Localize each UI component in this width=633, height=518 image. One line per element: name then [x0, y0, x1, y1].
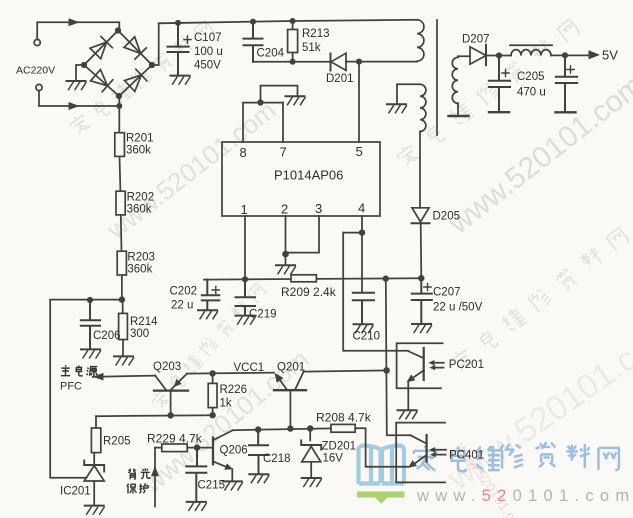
wire backlight: [154, 448, 156, 507]
diode bridge D1: [90, 36, 113, 59]
svg-text:R214: R214: [130, 316, 158, 328]
logo book icon: [359, 446, 405, 485]
resistor R208: [331, 424, 410, 466]
node bridge top: [115, 27, 121, 33]
svg-text:C107: C107: [194, 32, 222, 44]
svg-text:8: 8: [240, 145, 247, 160]
ground: [398, 410, 418, 419]
resistor R214: [119, 300, 128, 356]
svg-text:51k: 51k: [302, 42, 321, 54]
svg-text:R203: R203: [127, 252, 154, 264]
wire pfc out: [93, 376, 155, 377]
wire: [293, 61, 331, 63]
logo green band: [357, 492, 405, 504]
label zhudianyuan PFC: [61, 365, 97, 376]
node: [383, 367, 390, 374]
capacitor C215: [186, 448, 206, 502]
wire pin4: [343, 216, 362, 292]
capacitor C107: [168, 23, 192, 75]
transformer T1 primary: [417, 20, 424, 61]
label beiguang baohu: [127, 468, 150, 493]
watermark gray cjk band lower-left: [150, 282, 268, 410]
logo blue cjk text: [414, 442, 619, 471]
capacitor C210: [353, 293, 374, 324]
ground bar: [489, 111, 509, 113]
svg-text:www.520101.com: www.520101.com: [440, 312, 633, 498]
wire opto drop: [386, 279, 411, 436]
watermark gray cjk band top-left: [68, 19, 216, 137]
node: [356, 59, 362, 65]
op-amp U1 P1014AP06 box: [222, 142, 380, 216]
svg-text:Q206: Q206: [220, 445, 248, 457]
node bridge left: [81, 62, 87, 68]
svg-text:D205: D205: [433, 211, 461, 223]
svg-text:ZD201: ZD201: [322, 441, 357, 453]
svg-text:C218: C218: [263, 453, 291, 465]
wire: [458, 56, 470, 57]
capacitor C219: [236, 279, 256, 315]
svg-text:PFC: PFC: [60, 381, 82, 393]
wire pin1: [244, 216, 246, 279]
svg-text:PC201: PC201: [449, 359, 484, 371]
inductor L201: [510, 45, 552, 55]
node: [496, 52, 502, 58]
svg-text:C210: C210: [353, 331, 381, 343]
svg-text:360k: 360k: [127, 204, 152, 216]
ground: [67, 81, 87, 90]
ground: [223, 481, 243, 490]
node: [290, 18, 296, 24]
ground: [171, 76, 191, 85]
wire: [486, 55, 511, 57]
svg-text:R202: R202: [127, 192, 155, 204]
resistor R226: [208, 373, 217, 415]
node: [87, 297, 93, 303]
svg-text:PC401: PC401: [449, 450, 484, 462]
capacitor C202: [202, 280, 220, 310]
svg-text:5V: 5V: [602, 48, 618, 63]
terminal AC input N: [36, 84, 42, 90]
svg-text:360k: 360k: [127, 264, 152, 276]
svg-text:R205: R205: [103, 436, 131, 448]
svg-text:D207: D207: [462, 34, 490, 46]
svg-text:C215: C215: [198, 480, 226, 492]
capacitor C output: [556, 55, 577, 110]
thyristor IC201: [84, 453, 104, 505]
arrow: [69, 18, 80, 26]
wire: [397, 84, 420, 103]
svg-text:VCC1: VCC1: [234, 362, 265, 374]
node: [116, 103, 122, 109]
ground: [187, 502, 207, 511]
node: [167, 412, 173, 418]
ground bar: [449, 115, 469, 117]
capacitor C205: [489, 56, 510, 111]
svg-text:300: 300: [130, 328, 149, 340]
wire pin8 pin7: [243, 86, 298, 142]
capacitor C207: [412, 278, 432, 323]
svg-text:3: 3: [315, 201, 322, 216]
transistor Q201: [274, 372, 306, 429]
wire: [39, 91, 119, 106]
svg-text:Q201: Q201: [277, 362, 305, 374]
wire pin2 pin3: [286, 216, 320, 265]
wire: [551, 54, 589, 56]
ground: [81, 349, 101, 358]
svg-text:R213: R213: [302, 28, 330, 40]
wire: [50, 299, 122, 301]
node: [287, 425, 293, 431]
node: [418, 275, 424, 281]
capacitor C206: [81, 300, 100, 349]
node: [175, 20, 181, 26]
diode bridge D2: [124, 36, 147, 59]
wire: [152, 24, 159, 66]
optocoupler PC201: [397, 343, 444, 409]
svg-text:R201: R201: [126, 133, 154, 145]
svg-text:R229 4.7k: R229 4.7k: [147, 432, 203, 446]
capacitor C204: [244, 22, 263, 62]
node bridge bottom: [116, 93, 122, 99]
arrow: [151, 466, 159, 476]
svg-text:Q203: Q203: [153, 361, 181, 373]
svg-text:R209 2.4k: R209 2.4k: [281, 285, 337, 299]
svg-text:360k: 360k: [126, 145, 151, 157]
svg-text:C205: C205: [517, 71, 545, 83]
node: [250, 19, 256, 25]
node: [290, 59, 296, 65]
ground: [354, 324, 374, 333]
wire feedback: [343, 233, 408, 351]
wire: [346, 61, 417, 63]
svg-text:22 u /50V: 22 u /50V: [433, 302, 483, 314]
arrow: [93, 373, 104, 381]
ground bar: [556, 111, 576, 113]
svg-text:R208 4.7k: R208 4.7k: [316, 411, 372, 425]
diode D201: [331, 53, 347, 70]
ground: [249, 474, 269, 483]
node: [194, 444, 200, 450]
resistor R209: [291, 275, 316, 282]
svg-text:450V: 450V: [194, 60, 221, 72]
transformer core: [436, 20, 438, 135]
wire: [304, 370, 387, 371]
ground: [198, 310, 218, 319]
wire rail: [204, 278, 421, 279]
svg-text:100 u: 100 u: [194, 46, 223, 58]
bridge rectifier frame: [84, 31, 152, 97]
terminal AC input L: [34, 39, 40, 45]
svg-text:4: 4: [358, 201, 365, 216]
wire rail pfc: [96, 415, 214, 416]
node: [383, 275, 389, 281]
svg-text:1k: 1k: [220, 398, 232, 410]
svg-text:R226: R226: [220, 384, 248, 396]
svg-text:22 u: 22 u: [171, 300, 193, 312]
arrow 5V out: [589, 50, 601, 59]
ground: [114, 356, 134, 365]
node: [255, 426, 261, 432]
node: [209, 370, 215, 376]
resistor R203: [117, 251, 126, 299]
ground: [302, 478, 322, 487]
watermark gray cjk band top-right: [395, 17, 581, 169]
wire base rail: [232, 428, 331, 430]
node bridge right: [149, 62, 155, 68]
ground: [286, 96, 306, 105]
ground: [85, 506, 105, 514]
svg-text:D201: D201: [326, 73, 354, 85]
node: [257, 99, 263, 105]
wire: [419, 132, 421, 208]
svg-text:C219: C219: [249, 309, 277, 321]
watermark gray cjk band mid-right: [449, 226, 630, 374]
wire: [76, 65, 84, 80]
node: [282, 251, 289, 258]
resistor R202: [116, 191, 125, 251]
wire vcc1 rail: [187, 373, 274, 374]
zener ZD201: [301, 429, 321, 478]
node: [209, 412, 215, 418]
transformer T1 aux winding: [420, 84, 426, 131]
ground: [412, 324, 432, 333]
svg-text:C202: C202: [170, 286, 198, 298]
svg-text:C206: C206: [93, 330, 121, 342]
resistor R201: [115, 133, 125, 192]
diode bridge D4: [124, 69, 147, 92]
wire top rail: [159, 20, 417, 24]
svg-text:C207: C207: [433, 287, 461, 299]
svg-text:www.520101.com: www.520101.com: [416, 487, 633, 505]
svg-text:470 u: 470 u: [517, 87, 546, 99]
wire: [50, 300, 86, 478]
diode D205: [412, 208, 430, 224]
wire: [37, 22, 119, 39]
ground: [236, 316, 256, 325]
transistor Q203: [154, 374, 188, 416]
diode bridge D3: [90, 69, 113, 92]
svg-text:AC220V: AC220V: [16, 65, 55, 77]
node: [562, 52, 568, 58]
svg-text:7: 7: [280, 145, 287, 160]
capacitor C218: [249, 430, 268, 474]
svg-text:IC201: IC201: [60, 486, 91, 498]
node: [307, 425, 313, 431]
resistor R213: [288, 21, 298, 62]
arrow: [69, 102, 80, 110]
ground: [387, 104, 407, 113]
transistor Q206: [197, 430, 233, 480]
diode D207: [470, 45, 486, 65]
svg-text:16V: 16V: [323, 453, 344, 465]
wire pin5: [358, 62, 360, 142]
wire: [420, 223, 423, 278]
wire: [253, 61, 293, 63]
svg-text:P1014AP06: P1014AP06: [274, 168, 343, 183]
node: [359, 229, 365, 235]
svg-text:C204: C204: [257, 48, 285, 60]
svg-text:1: 1: [241, 202, 248, 217]
node: [242, 276, 248, 282]
svg-text:2: 2: [281, 202, 288, 217]
wire: [118, 96, 120, 133]
svg-text:www.520101.com: www.520101.com: [101, 95, 282, 246]
wire: [457, 103, 459, 114]
transformer T1 secondary: [452, 57, 458, 103]
resistor R229: [155, 444, 197, 452]
resistor R205: [91, 416, 100, 452]
optocoupler PC401: [396, 423, 446, 483]
ground: [276, 265, 296, 274]
svg-text:5: 5: [356, 144, 363, 159]
node: [119, 296, 125, 302]
